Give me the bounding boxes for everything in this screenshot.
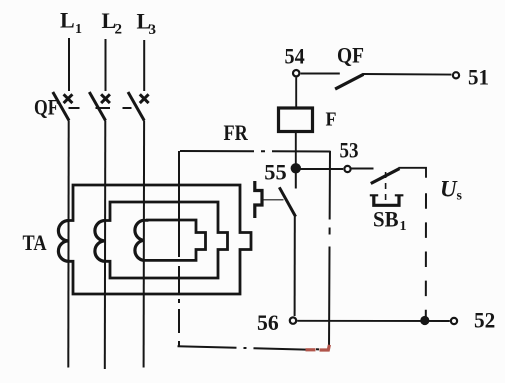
transformer TA coil 1: [58, 221, 68, 262]
wire terminal 56 to terminal 52: [297, 320, 450, 322]
svg-text:56: 56: [257, 310, 279, 335]
pushbutton SB1 actuator bracket: [374, 195, 399, 206]
wire node 55 to terminal 53: [296, 168, 343, 170]
switch QF auxiliary contact blade: [335, 74, 363, 89]
terminal 51: [453, 72, 459, 78]
terminal 52: [451, 318, 457, 324]
pushbutton SB1 label: [373, 207, 407, 235]
svg-text:3: 3: [149, 22, 157, 38]
node L1 label: [60, 8, 82, 38]
svg-text:53: 53: [340, 138, 359, 163]
transformer TA coil 2: [95, 221, 105, 262]
terminal 54: [293, 70, 299, 76]
svg-text:F: F: [326, 109, 337, 131]
svg-text:1: 1: [75, 22, 82, 37]
net Us label: [440, 177, 463, 204]
wire QF aux to terminal 51: [363, 73, 452, 76]
wire L3 incoming: [143, 40, 145, 91]
transformer TA outer secondary loop with heater FR pole 1: [69, 185, 252, 294]
svg-text:51: 51: [468, 65, 489, 90]
contact FR actuation link: [264, 199, 284, 201]
svg-text:55: 55: [264, 160, 286, 185]
junction node 55: [291, 163, 301, 173]
wire 54 to QF aux contact: [301, 73, 340, 75]
contact FR blade (NC 55-56): [295, 171, 297, 189]
wire relay F to node 55: [295, 132, 297, 169]
svg-text:L: L: [60, 8, 75, 33]
wire L1 incoming: [68, 38, 70, 91]
node L2 label: [102, 8, 123, 38]
red trace on FR bottom edge: [306, 345, 330, 350]
wire Us dashed drop: [425, 193, 427, 317]
svg-text:1: 1: [400, 219, 407, 234]
breaker QF pole 3: [128, 92, 149, 121]
wire SB1 to corner: [399, 168, 427, 178]
svg-text:FR: FR: [224, 120, 249, 145]
transformer TA middle secondary loop with heater FR pole 2: [105, 202, 227, 278]
terminal 53: [344, 166, 350, 172]
svg-text:52: 52: [474, 308, 495, 333]
pushbutton SB1 link dashed: [385, 172, 387, 204]
svg-text:QF: QF: [34, 94, 59, 119]
relay FR enclosure dash-dot box: [178, 151, 331, 350]
transformer TA coil 3: [135, 220, 144, 260]
contact FR thermal release hook: [255, 181, 262, 218]
pushbutton SB1 blade: [371, 169, 400, 184]
relay F coil: [279, 108, 313, 132]
transformer TA inner secondary loop with heater FR pole 3: [144, 220, 206, 260]
svg-text:SB: SB: [373, 207, 399, 232]
terminal 56: [290, 317, 296, 323]
svg-text:2: 2: [115, 22, 123, 38]
breaker QF pole 2: [89, 92, 110, 121]
svg-text:s: s: [457, 189, 463, 204]
wire FR contact to terminal 56: [294, 217, 296, 317]
node L3 label: [137, 9, 157, 39]
breaker QF pole 1: [53, 92, 73, 121]
svg-text:U: U: [440, 177, 458, 202]
wire L3 to bottom: [143, 121, 146, 368]
wire L2 to bottom: [104, 121, 107, 370]
svg-text:TA: TA: [23, 230, 47, 255]
wire L1 to bottom: [67, 121, 69, 368]
breaker QF linkage dashed: [69, 107, 132, 109]
svg-text:QF: QF: [337, 43, 364, 68]
wire L2 incoming: [105, 39, 107, 91]
wire 54 down to relay F: [295, 77, 297, 108]
junction on 56-52 wire: [420, 316, 429, 325]
svg-text:54: 54: [285, 44, 305, 69]
wire terminal 53 to SB1: [352, 168, 374, 170]
